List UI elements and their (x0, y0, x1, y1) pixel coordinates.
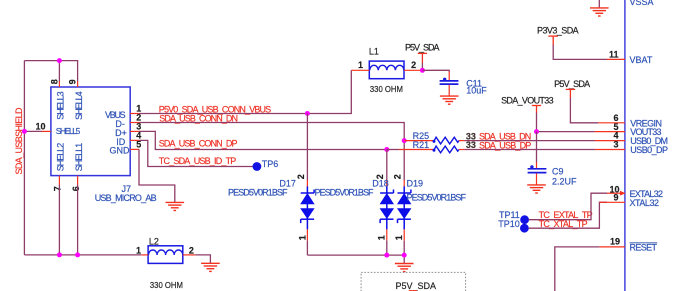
pin 5 stub (130, 148, 139, 150)
svg-text:PESD5V0R1BSF: PESD5V0R1BSF (407, 193, 467, 203)
wire shield bottom (24, 254, 141, 256)
power flag SDA_VOUT33 (532, 106, 541, 114)
ground C11 (440, 96, 459, 104)
svg-text:VBAT: VBAT (630, 55, 653, 65)
diode D19 (398, 186, 411, 229)
pin 6 stub IC (598, 122, 625, 124)
diode D18 pin stubs (386, 180, 388, 187)
wire shield top (24, 61, 77, 82)
wire SDA_VOUT33 to pin 5 (537, 113, 595, 132)
wire P5V flag to junction (421, 63, 423, 71)
svg-text:USB0_DP: USB0_DP (630, 145, 668, 155)
junction DN-R25 (402, 138, 407, 143)
diode D17 pin stubs (306, 180, 308, 187)
ground L2 (201, 263, 220, 271)
svg-text:D19: D19 (407, 179, 424, 189)
pin 4 stub IC (595, 140, 625, 142)
svg-text:SHELL5: SHELL5 (56, 126, 81, 136)
pin 7 stub (58, 176, 60, 185)
svg-text:1: 1 (394, 235, 404, 240)
svg-text:R21: R21 (413, 140, 430, 150)
pin 10 stub IC with arrow (607, 192, 621, 194)
IC U1 right edge (624, 0, 626, 291)
ground diode rail (395, 264, 414, 272)
wire VBUS (139, 70, 351, 113)
wire P5V to VREGIN pin 6 (570, 98, 598, 123)
svg-text:P3V3_SDA: P3V3_SDA (537, 25, 579, 35)
pin 5 stub IC (595, 131, 625, 133)
svg-text:XTAL32: XTAL32 (630, 198, 660, 208)
svg-text:SHELL4: SHELL4 (74, 91, 84, 120)
svg-text:8: 8 (50, 79, 60, 84)
svg-text:2: 2 (375, 174, 385, 179)
diode D19 pin stubs (403, 180, 405, 187)
capacitor C9 (528, 162, 547, 185)
svg-text:PESD5V0R1BSF: PESD5V0R1BSF (315, 188, 375, 198)
ground connector GND (166, 202, 185, 210)
svg-text:VSSA: VSSA (630, 0, 654, 7)
svg-text:2.2UF: 2.2UF (552, 176, 577, 186)
svg-text:33: 33 (466, 140, 476, 150)
wire L2 pin2 to ground (195, 255, 210, 263)
pin 3 stub (130, 130, 139, 132)
wire D17 branch (306, 114, 308, 181)
svg-text:USB_MICRO_AB: USB_MICRO_AB (95, 193, 157, 203)
capacitor C11 (440, 72, 459, 97)
wire TP11 to pin 10 (529, 193, 607, 220)
wire DP (139, 131, 387, 149)
svg-text:SHELL1: SHELL1 (74, 143, 84, 172)
wire C9 branch (536, 132, 538, 163)
wire diode ground rail (307, 255, 404, 263)
svg-text:SDA_VOUT33: SDA_VOUT33 (501, 96, 553, 106)
svg-text:10: 10 (35, 122, 45, 132)
pin 9 stub IC (599, 201, 625, 203)
wire TP10 to pin 9 (529, 202, 607, 228)
pin 11 stub IC (607, 58, 625, 60)
svg-text:330 OHM: 330 OHM (150, 280, 183, 290)
wire D18 bottom (386, 241, 388, 256)
dashed box P5V_SDA region (361, 272, 466, 291)
svg-text:L1: L1 (369, 46, 379, 56)
junction VOUT33-C9 (534, 129, 539, 134)
svg-text:3: 3 (613, 140, 618, 150)
junction pin6 bottom (75, 252, 80, 257)
svg-text:2: 2 (411, 60, 416, 70)
inductor L2 (141, 246, 195, 264)
svg-text:11: 11 (609, 49, 619, 59)
junction pin10 (22, 129, 27, 134)
pin 10 stub (42, 130, 51, 132)
svg-text:10uF: 10uF (466, 86, 487, 96)
junction pin7 bottom (57, 252, 62, 257)
pin 8 stub (58, 81, 60, 87)
svg-text:TC_SDA_USB_ID_TP: TC_SDA_USB_ID_TP (159, 156, 237, 166)
wire GND to ground (139, 149, 175, 202)
svg-text:P5V_SDA: P5V_SDA (396, 281, 437, 291)
pin 1 stub (130, 113, 139, 115)
pin 3 stub IC (595, 149, 625, 151)
inductor L1 (351, 61, 422, 79)
junction L1-P5V (420, 68, 425, 73)
wire D19 branch (403, 141, 405, 181)
svg-text:RESET: RESET (630, 243, 658, 253)
pin 9 stub (77, 81, 79, 87)
wire D19 bottom (403, 241, 405, 256)
svg-text:GND: GND (110, 146, 131, 156)
svg-text:7: 7 (53, 186, 63, 191)
svg-text:1: 1 (297, 235, 307, 240)
ground C9 (527, 185, 546, 193)
pin 19 stub IC (600, 246, 625, 248)
wire DN (139, 123, 404, 141)
connector J7 body (51, 87, 130, 176)
resistor R25 (404, 137, 465, 144)
wire shield left vertical (23, 61, 25, 255)
svg-text:6: 6 (71, 186, 81, 191)
svg-text:9: 9 (613, 193, 618, 203)
testpoint TP10 (520, 224, 529, 233)
svg-text:SDA_USBSHIELD: SDA_USBSHIELD (14, 107, 24, 175)
svg-text:2: 2 (393, 174, 403, 179)
svg-text:SDA_USB_CONN_DP: SDA_USB_CONN_DP (159, 138, 238, 148)
wire pin6 down (77, 185, 79, 255)
power flag P5V_SDA (418, 53, 427, 63)
svg-text:PESD5V0R1BSF: PESD5V0R1BSF (228, 188, 288, 198)
wire pin10 (24, 130, 41, 132)
svg-text:330 OHM: 330 OHM (370, 84, 403, 94)
svg-text:1: 1 (136, 245, 141, 255)
svg-text:C9: C9 (552, 166, 564, 176)
wire pin8 drop (58, 61, 60, 82)
wire ID (139, 140, 253, 166)
pin 2 stub (130, 122, 139, 124)
wire P3V3 to VBAT pin 11 (553, 45, 607, 60)
wire R21 to pin3 (465, 149, 595, 151)
junction D18 rail (384, 253, 389, 258)
wire D17 bottom (306, 241, 308, 256)
diode D17 (301, 186, 314, 229)
wire RESET net (555, 247, 600, 291)
junction D19 rail (402, 253, 407, 258)
wire D18 branch (386, 150, 388, 181)
wire pin7 down (58, 185, 60, 255)
wire L1 to C11 (422, 70, 449, 72)
svg-text:P5V_SDA: P5V_SDA (554, 79, 590, 89)
junction DP-D18 (384, 147, 389, 152)
svg-text:SHELL3: SHELL3 (56, 91, 66, 120)
diode D18 (380, 186, 393, 229)
svg-text:2: 2 (189, 245, 194, 255)
svg-text:1: 1 (377, 235, 387, 240)
svg-text:TP6: TP6 (262, 159, 279, 169)
pin 6 stub (77, 176, 79, 185)
junction shield top (57, 58, 62, 63)
svg-text:1: 1 (358, 60, 363, 70)
svg-text:P5V_SDA: P5V_SDA (405, 43, 440, 53)
pin 4 stub (130, 139, 139, 141)
svg-text:19: 19 (610, 237, 620, 247)
power flag P3V3_SDA (548, 36, 558, 45)
junction VBUS-D17 (305, 111, 310, 116)
testpoint TP11 (520, 215, 529, 224)
wire R25 to pin4 (465, 140, 595, 142)
svg-text:TP10: TP10 (498, 219, 520, 229)
svg-text:2: 2 (296, 174, 306, 179)
ground VSSA (598, 0, 600, 8)
svg-text:SHELL2: SHELL2 (56, 143, 66, 172)
svg-text:9: 9 (68, 79, 78, 84)
svg-text:L2: L2 (149, 237, 159, 247)
testpoint TP6 (253, 162, 262, 171)
resistor R21 (387, 146, 465, 153)
power flag P5V_SDA right (566, 89, 575, 98)
